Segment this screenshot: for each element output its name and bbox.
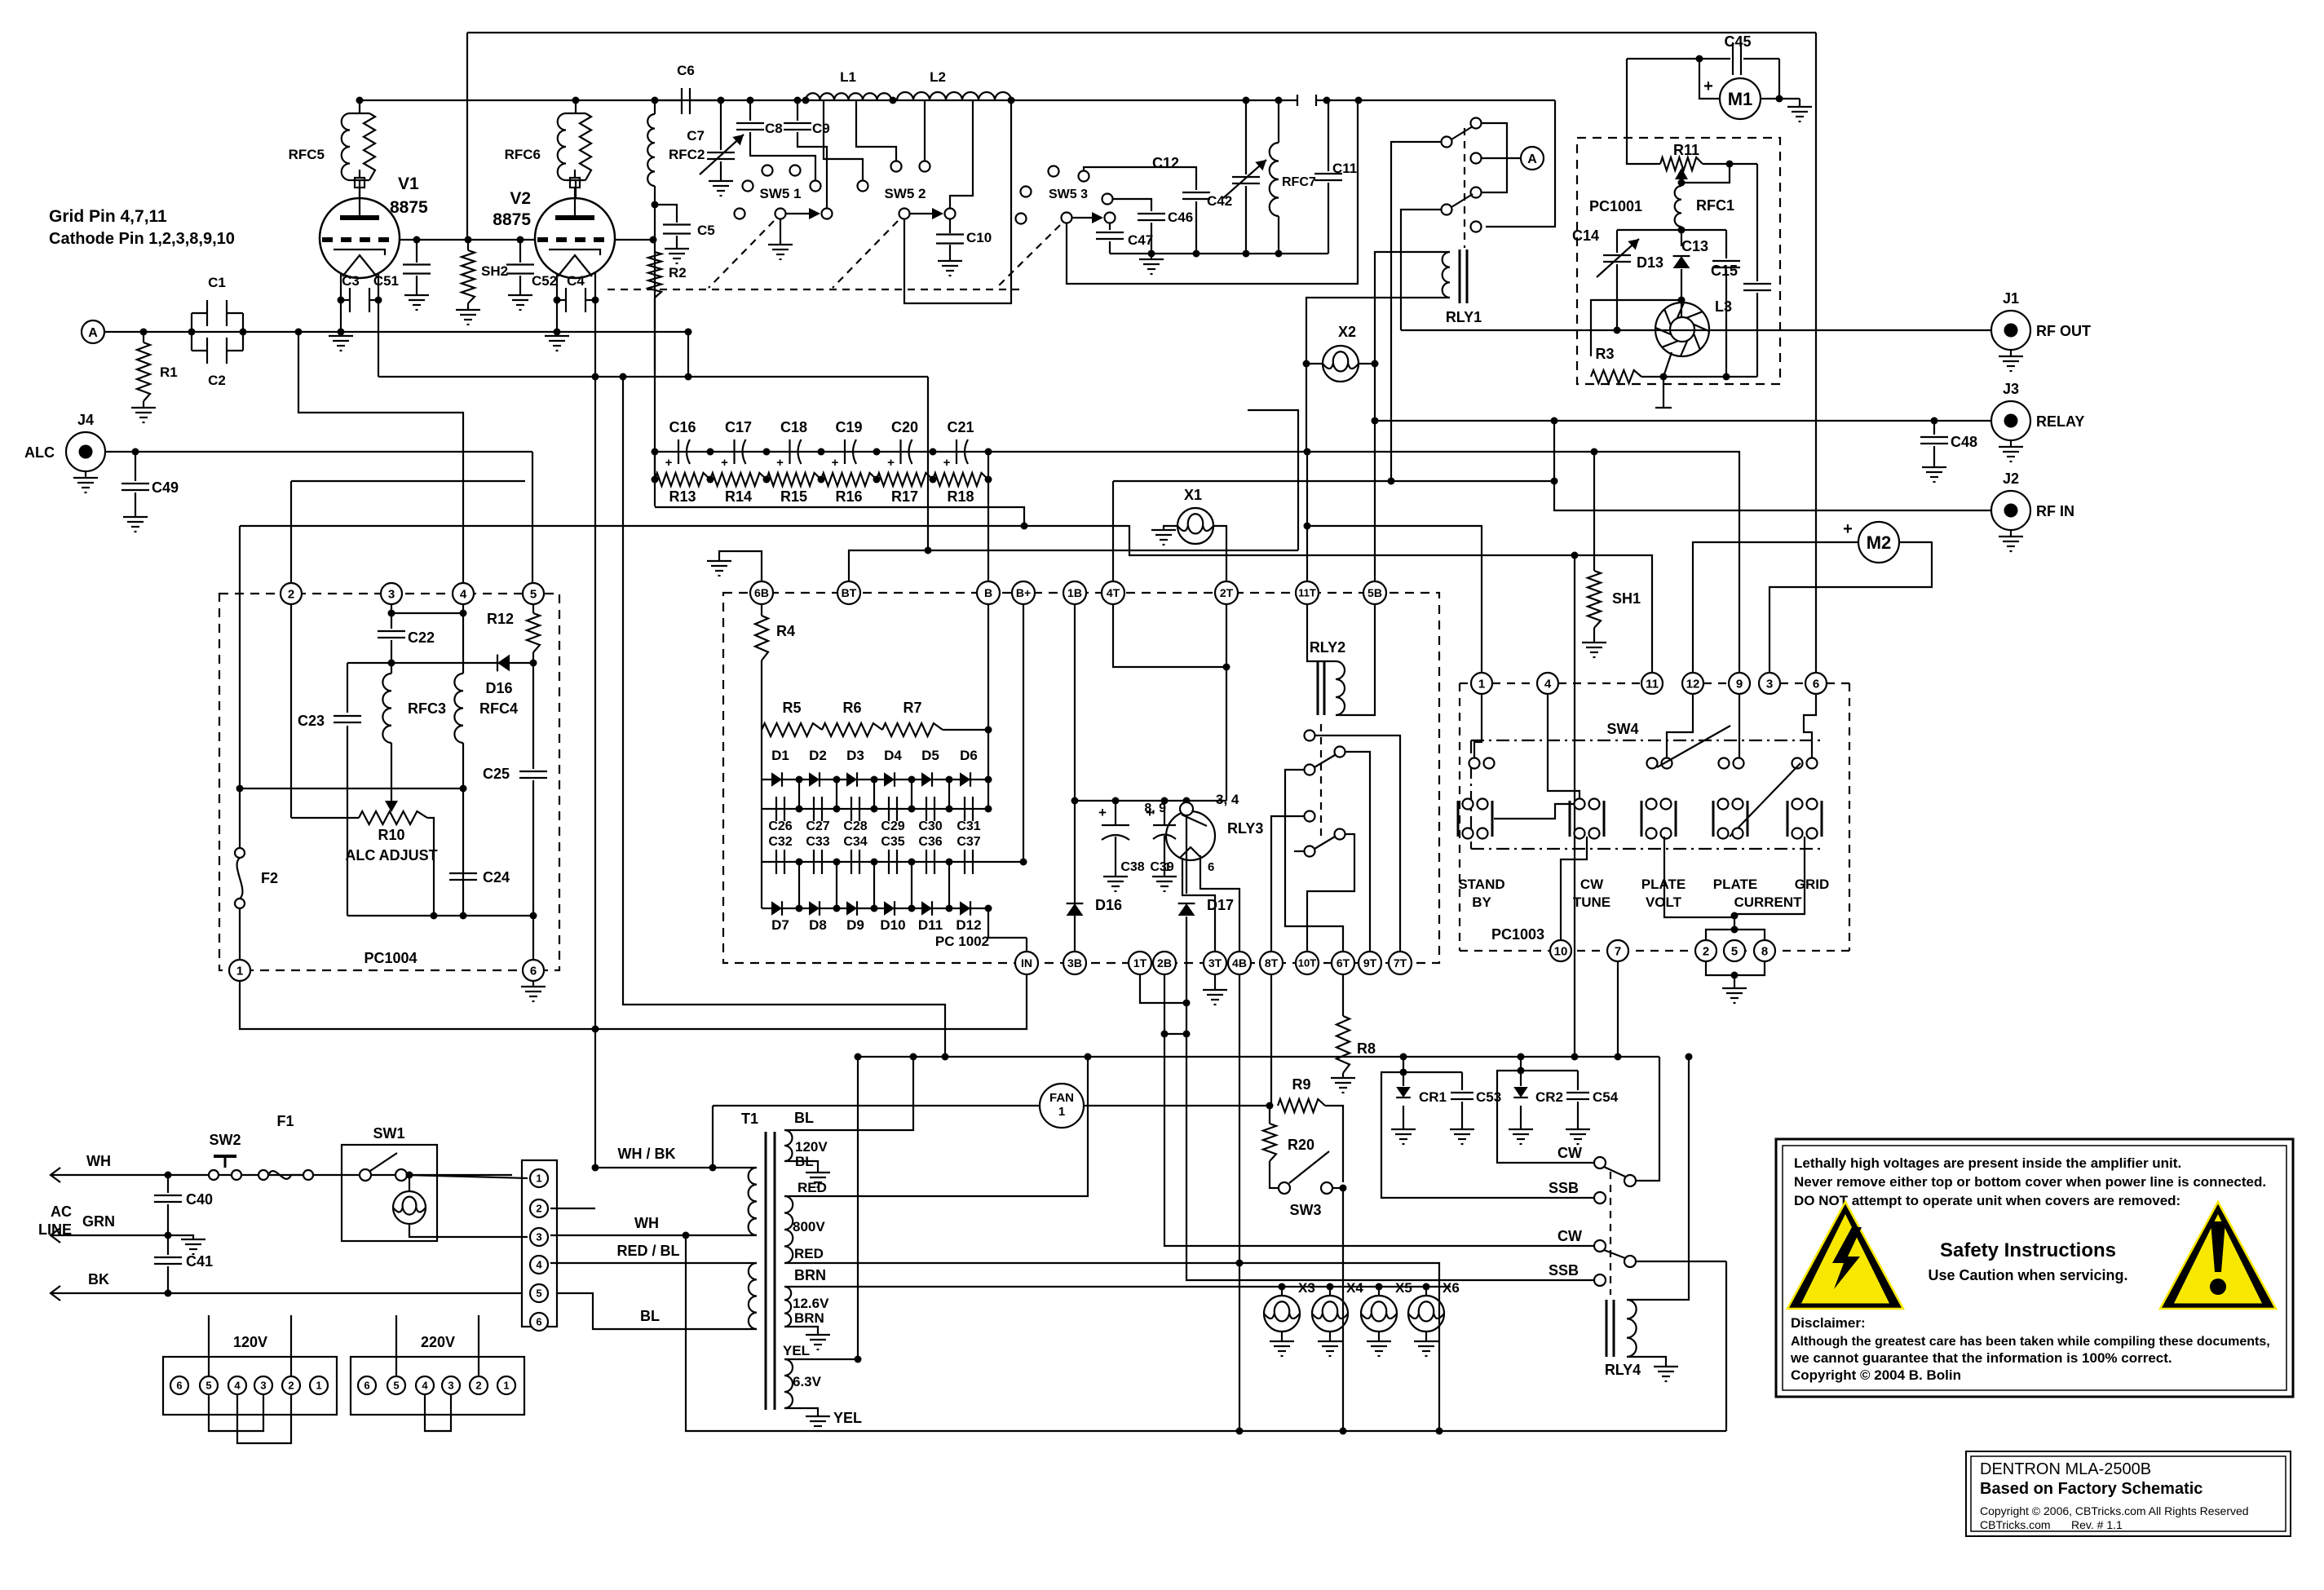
- wire WH column to bottom bus: [686, 1235, 1726, 1431]
- warning triangle high voltage: [1787, 1202, 1903, 1309]
- wire 220V stubs: [395, 1315, 397, 1376]
- capacitor C51: [416, 240, 418, 263]
- node 8 PC1003: [1754, 940, 1775, 961]
- svg-text:F2: F2: [261, 870, 278, 886]
- capacitor C45: [1627, 58, 1730, 60]
- svg-text:+: +: [887, 456, 895, 470]
- wire node 2 stub line: [291, 480, 525, 482]
- ground GRN: [168, 1235, 193, 1239]
- svg-text:R16: R16: [835, 488, 862, 505]
- svg-text:SH2: SH2: [481, 263, 508, 279]
- svg-text:C25: C25: [483, 766, 510, 782]
- svg-text:C48: C48: [1951, 434, 1977, 450]
- warning triangle exclamation: [2160, 1202, 2276, 1309]
- svg-text:1: 1: [536, 1173, 541, 1185]
- svg-text:D17: D17: [1207, 897, 1234, 913]
- svg-text:R20: R20: [1288, 1137, 1314, 1153]
- switch SW1 contacts: [360, 1169, 371, 1181]
- wire X1 to 2T column: [1213, 526, 1226, 581]
- wire STAND BY row link: [1494, 804, 1574, 819]
- dashed RLY2 actuator: [1320, 724, 1322, 838]
- svg-text:DO NOT attempt to operate unit: DO NOT attempt to operate unit when cove…: [1794, 1193, 2180, 1208]
- svg-text:C42: C42: [1207, 193, 1232, 209]
- capacitor C42: [1084, 167, 1196, 190]
- terminal 2: [530, 1199, 548, 1217]
- node 3B: [1063, 952, 1086, 974]
- terminal 1 (120V block): [310, 1376, 328, 1394]
- resistor R1: [143, 332, 144, 342]
- wire J3 relay line: [1375, 420, 1991, 422]
- svg-text:CW: CW: [1557, 1145, 1582, 1161]
- capacitor C41: [167, 1235, 169, 1255]
- wire RF OUT line: [1401, 329, 1991, 331]
- svg-text:YEL: YEL: [783, 1343, 810, 1358]
- svg-text:+: +: [776, 456, 784, 470]
- capacitor C2: [192, 350, 207, 351]
- svg-text:C9: C9: [812, 121, 830, 136]
- wire RLY1 moving c6 to RF OUT: [1401, 210, 1442, 330]
- svg-text:R5: R5: [782, 700, 801, 716]
- switch SW5 2 selector: [899, 209, 910, 219]
- ground C49: [123, 516, 148, 518]
- node 5B: [1363, 581, 1386, 604]
- wire M2 minus to node 3: [1770, 542, 1932, 674]
- svg-text:1: 1: [1164, 860, 1171, 874]
- node 2T: [1215, 581, 1238, 604]
- svg-text:Based on Factory Schematic: Based on Factory Schematic: [1980, 1480, 2202, 1498]
- svg-text:BK: BK: [88, 1271, 109, 1287]
- svg-text:R3: R3: [1595, 346, 1614, 362]
- node 9 PC1003: [1729, 673, 1750, 694]
- wire L1 tap 2: [856, 100, 896, 161]
- svg-text:3B: 3B: [1067, 956, 1082, 969]
- wire RLY2 c3 to 6T: [1285, 770, 1343, 952]
- svg-text:4: 4: [536, 1259, 542, 1271]
- wire SW3 column to bottom bus: [1342, 1188, 1344, 1431]
- svg-text:YEL: YEL: [833, 1410, 862, 1426]
- svg-text:2: 2: [1703, 944, 1709, 958]
- inductor L2: [890, 97, 897, 104]
- wire plate bus: [360, 99, 1297, 101]
- wire RLY3 pin1 to 3T: [1182, 858, 1215, 952]
- svg-text:5: 5: [536, 1287, 541, 1300]
- terminal 4 (220V block): [416, 1376, 434, 1394]
- svg-text:SSB: SSB: [1549, 1262, 1579, 1279]
- svg-text:C12: C12: [1152, 155, 1179, 171]
- svg-text:+: +: [832, 456, 839, 470]
- svg-text:C15: C15: [1711, 263, 1738, 279]
- wire BL top lead: [784, 1057, 913, 1130]
- wire RLY2 c4 to 8T: [1271, 816, 1305, 952]
- terminal 4 (120V block): [228, 1376, 246, 1394]
- svg-text:C54: C54: [1593, 1089, 1619, 1105]
- svg-text:3: 3: [448, 1380, 453, 1392]
- ground R8: [1331, 1077, 1355, 1079]
- svg-text:Never remove either top or bot: Never remove either top or bottom cover …: [1794, 1174, 2266, 1190]
- svg-text:220V: 220V: [421, 1334, 455, 1350]
- svg-text:SW2: SW2: [209, 1132, 241, 1148]
- svg-text:6: 6: [530, 964, 537, 978]
- svg-text:4: 4: [422, 1380, 428, 1392]
- wire D16 row: [347, 662, 533, 664]
- svg-text:CURRENT: CURRENT: [1734, 894, 1802, 910]
- svg-text:D9: D9: [846, 917, 864, 933]
- svg-text:RFC5: RFC5: [289, 147, 325, 162]
- svg-text:C26: C26: [768, 819, 792, 833]
- svg-text:1: 1: [503, 1380, 509, 1392]
- diode D16 (pc1004): [497, 655, 510, 672]
- wire grid line V1-V2: [400, 239, 535, 241]
- switch SW5 1 contacts: [762, 166, 773, 176]
- svg-text:6B: 6B: [754, 586, 769, 599]
- svg-text:SH1: SH1: [1612, 590, 1641, 607]
- node 3 PC1004: [381, 583, 402, 604]
- wire 120V jumpers: [209, 1394, 263, 1431]
- svg-text:D8: D8: [809, 917, 827, 933]
- capacitor C18: [789, 439, 790, 464]
- svg-text:D7: D7: [771, 917, 789, 933]
- svg-text:BL: BL: [640, 1308, 660, 1324]
- svg-text:L3: L3: [1715, 298, 1732, 315]
- svg-text:7T: 7T: [1394, 956, 1407, 969]
- node 1T: [1129, 952, 1151, 974]
- wire matrix ties upper: [798, 780, 800, 809]
- svg-text:8T: 8T: [1265, 956, 1279, 969]
- svg-text:C3: C3: [342, 273, 360, 289]
- resistor R18: [933, 473, 988, 486]
- svg-text:L2: L2: [930, 69, 946, 85]
- diode D9: [846, 901, 857, 916]
- svg-text:5: 5: [530, 587, 537, 601]
- node 11T: [1296, 581, 1319, 604]
- svg-text:J2: J2: [2003, 470, 2019, 487]
- wire 2-5-8 tie bottom: [1706, 962, 1765, 975]
- wire grid line V2 to RFC2 column: [615, 239, 653, 241]
- wire BT line corner up: [1248, 410, 1298, 550]
- svg-text:RFC4: RFC4: [479, 700, 518, 717]
- connector J2 RF IN: [1991, 491, 2030, 530]
- wire GRID bottom to node 5: [1734, 837, 1805, 914]
- node 2 PC1004: [290, 481, 292, 582]
- svg-text:C6: C6: [677, 63, 695, 78]
- svg-text:D12: D12: [956, 917, 981, 933]
- svg-text:3: 3: [536, 1231, 541, 1243]
- switch SW4 block PLATE VOLT: [1646, 799, 1657, 810]
- svg-text:SW5 3: SW5 3: [1049, 188, 1088, 201]
- svg-text:Copyright © 2006, CBTricks.com: Copyright © 2006, CBTricks.com All Right…: [1980, 1504, 2249, 1517]
- resistor R3: [1591, 370, 1641, 383]
- T1 secondary RED 800V winding: [784, 1196, 793, 1263]
- svg-text:D4: D4: [884, 748, 902, 763]
- svg-text:5: 5: [393, 1380, 399, 1392]
- node 3 PC1003: [1759, 673, 1780, 694]
- toroid L3: [1655, 303, 1709, 356]
- node 8T: [1260, 952, 1283, 974]
- meter M2: [1858, 522, 1899, 563]
- svg-text:6.3V: 6.3V: [793, 1374, 822, 1389]
- wire 1B column: [1074, 604, 1076, 952]
- svg-text:RELAY: RELAY: [2036, 413, 2084, 430]
- svg-text:C18: C18: [780, 419, 807, 435]
- svg-text:10: 10: [1554, 944, 1568, 958]
- capacitor C54: [1577, 1071, 1579, 1090]
- svg-text:RF IN: RF IN: [2036, 503, 2074, 519]
- ground M1: [1799, 99, 1800, 107]
- potentiometer R11: [1660, 157, 1703, 170]
- node 9T: [1359, 952, 1381, 974]
- diode D17: [1186, 801, 1187, 894]
- capacitor row C32-C37: [762, 861, 988, 863]
- svg-text:800V: 800V: [793, 1219, 825, 1234]
- resistor SH2: [462, 250, 475, 303]
- switch SW4 dash-dot outline: [1471, 740, 1824, 741]
- wire AC BK line: [51, 1286, 60, 1301]
- svg-text:WH / BK: WH / BK: [618, 1146, 676, 1162]
- svg-text:RFC1: RFC1: [1696, 197, 1734, 214]
- wire RFC1 bottom node: [1617, 229, 1726, 231]
- svg-text:R4: R4: [776, 623, 795, 639]
- wire SW1 lamp to WH: [409, 1224, 528, 1237]
- svg-text:R14: R14: [725, 488, 752, 505]
- svg-text:8, 9: 8, 9: [1144, 802, 1166, 815]
- wire ALC line: [105, 451, 532, 453]
- svg-text:RED: RED: [794, 1246, 824, 1261]
- svg-text:4: 4: [234, 1380, 241, 1392]
- vacuum tube V2 8875: [535, 198, 615, 278]
- ground C39: [1152, 876, 1177, 877]
- svg-text:6T: 6T: [1337, 956, 1350, 969]
- node 10 PC1003: [1550, 940, 1571, 961]
- svg-text:8875: 8875: [493, 210, 531, 229]
- capacitor C22: [391, 613, 392, 629]
- capacitor C47: [1109, 223, 1111, 230]
- svg-text:B+: B+: [1016, 586, 1031, 599]
- svg-text:RFC7: RFC7: [1282, 175, 1316, 189]
- svg-text:D16: D16: [485, 680, 512, 696]
- node 6 PC1004: [523, 960, 544, 981]
- wire 220V jumper: [425, 1394, 451, 1431]
- diode D11: [921, 901, 932, 916]
- ground 6B: [719, 551, 762, 581]
- terminal 5: [530, 1284, 548, 1302]
- svg-text:9: 9: [1736, 677, 1743, 691]
- node A (output sample): [1481, 157, 1521, 159]
- connector J4 ALC: [66, 432, 105, 471]
- svg-text:C47: C47: [1128, 232, 1153, 248]
- wire node 2 column to R10: [290, 605, 292, 818]
- wire node 1 to IN node: [240, 974, 1027, 1029]
- RF choke RFC3: [382, 674, 391, 743]
- terminal 3 (220V block): [442, 1376, 460, 1394]
- wire R11 right: [1703, 163, 1757, 165]
- wire SW5 3 selector loop to bus: [1067, 100, 1358, 284]
- svg-text:2: 2: [475, 1380, 481, 1392]
- wire CW TUNE to node 10: [1561, 837, 1587, 940]
- svg-text:RLY2: RLY2: [1310, 639, 1345, 656]
- wire RLY2 c2 to 9T: [1345, 752, 1370, 952]
- svg-text:D13: D13: [1637, 254, 1663, 271]
- wire 120V stubs: [208, 1315, 210, 1376]
- capacitor C33: [813, 850, 815, 874]
- svg-text:C27: C27: [806, 819, 829, 833]
- svg-text:BRN: BRN: [794, 1267, 826, 1283]
- potentiometer R10: [359, 811, 427, 824]
- node 5 PC1003: [1724, 940, 1745, 961]
- relay RLY4: [1606, 1300, 1608, 1357]
- svg-text:Copyright © 2004 B. Bolin: Copyright © 2004 B. Bolin: [1791, 1367, 1961, 1383]
- lamp X1: [1177, 508, 1213, 544]
- svg-text:R15: R15: [780, 488, 807, 505]
- wire RFC3 to R10 wiper: [391, 743, 392, 804]
- svg-text:C5: C5: [697, 223, 715, 238]
- wire bus corner to RLY1 contact: [1486, 100, 1555, 227]
- wire node4 stem: [1548, 695, 1580, 799]
- ground 3T: [1214, 974, 1216, 990]
- capacitor C39 (electrolytic): [1164, 801, 1165, 825]
- svg-text:TUNE: TUNE: [1573, 894, 1610, 910]
- wire ladder left side: [654, 452, 656, 479]
- node 2B: [1153, 952, 1176, 974]
- svg-text:2: 2: [288, 1380, 294, 1392]
- wire 1T/2B tie to D17 column: [1140, 974, 1186, 1003]
- svg-text:C30: C30: [918, 819, 942, 833]
- lamp SW1: [393, 1191, 426, 1224]
- svg-text:+: +: [1703, 77, 1713, 95]
- resistor SH1: [1588, 571, 1601, 628]
- svg-text:1T: 1T: [1133, 956, 1147, 969]
- svg-text:A: A: [88, 326, 98, 340]
- terminal 1 (220V block): [497, 1376, 515, 1394]
- terminal 4: [530, 1256, 548, 1274]
- svg-text:BY: BY: [1472, 894, 1491, 910]
- node 4T: [1102, 581, 1124, 604]
- wire RLY2 coil bottom to 5B: [1336, 604, 1375, 715]
- connector J1 RF OUT: [1991, 311, 2030, 350]
- capacitor C25: [532, 663, 534, 769]
- wire D17 column down to lower SSB: [1186, 1034, 1593, 1280]
- svg-text:C23: C23: [298, 713, 325, 729]
- svg-text:10T: 10T: [1298, 957, 1316, 969]
- resistor R9: [1278, 1099, 1325, 1112]
- svg-text:C35: C35: [881, 835, 904, 849]
- node 1 PC1003: [1471, 673, 1492, 694]
- resistors R5 R6 R7: [762, 723, 822, 736]
- svg-text:RFC2: RFC2: [669, 147, 705, 162]
- node B: [977, 581, 1000, 604]
- svg-text:GRN: GRN: [82, 1213, 115, 1230]
- node 1B: [1063, 581, 1086, 604]
- T1 secondary YEL 6.3V winding: [784, 1359, 793, 1408]
- svg-text:RLY3: RLY3: [1227, 820, 1263, 837]
- node 4 PC1003: [1537, 673, 1558, 694]
- svg-text:BRN: BRN: [794, 1310, 824, 1326]
- svg-text:T1: T1: [741, 1111, 758, 1127]
- terminal 6: [530, 1313, 548, 1331]
- capacitor C48: [1933, 421, 1935, 435]
- terminal 3 (120V block): [254, 1376, 272, 1394]
- svg-text:C36: C36: [918, 835, 942, 849]
- node 4 PC1004: [298, 332, 463, 582]
- wire WH/BK lead: [595, 1167, 757, 1168]
- svg-text:Disclaimer:: Disclaimer:: [1791, 1315, 1866, 1331]
- resistor R13: [655, 473, 710, 486]
- resistor R20: [1269, 1106, 1270, 1124]
- svg-text:R18: R18: [947, 488, 974, 505]
- svg-text:F1: F1: [276, 1113, 294, 1129]
- ground C48: [1922, 466, 1946, 468]
- svg-text:2: 2: [536, 1203, 541, 1215]
- wire RLY1 c1-c4 tie: [1481, 123, 1507, 192]
- wire BRN lead to lamps: [784, 1286, 1451, 1287]
- lamp X4: [1327, 1283, 1334, 1291]
- svg-text:C51: C51: [373, 273, 399, 289]
- capacitor C28: [851, 797, 852, 821]
- dashed CW/SSB actuator: [1610, 1172, 1611, 1295]
- wire BT line: [849, 550, 1298, 581]
- ground J4: [85, 471, 86, 478]
- wire RED/BL lead: [550, 1262, 757, 1264]
- ground V1 cathode: [329, 335, 353, 337]
- capacitor C34: [851, 850, 852, 874]
- vacuum tube V1 8875: [320, 198, 400, 278]
- wire top HV bus: [467, 32, 1816, 33]
- capacitor C11: [1323, 97, 1331, 104]
- svg-text:RF OUT: RF OUT: [2036, 323, 2091, 339]
- resistor R4: [761, 604, 762, 616]
- svg-text:+: +: [943, 456, 951, 470]
- svg-text:SW4: SW4: [1606, 721, 1638, 737]
- svg-text:5: 5: [1731, 944, 1738, 958]
- svg-text:C32: C32: [768, 835, 792, 849]
- resistor R14: [710, 473, 767, 486]
- svg-text:1B: 1B: [1067, 586, 1082, 599]
- capacitor C32: [775, 850, 777, 874]
- wire RLY2 c1 to 7T: [1314, 735, 1400, 952]
- node 12 PC1003: [1682, 673, 1703, 694]
- PC1003 dashed outline: [1460, 682, 1471, 684]
- node 7 PC1003: [1607, 940, 1628, 961]
- svg-text:Although the greatest care has: Although the greatest care has been take…: [1791, 1335, 2270, 1349]
- wire matrix ties lower: [798, 862, 800, 908]
- capacitor C46: [1113, 199, 1151, 211]
- wire B+ column: [1023, 604, 1024, 862]
- svg-text:C1: C1: [208, 275, 226, 290]
- wire input line: [104, 331, 688, 333]
- wire R9 to SW3: [1325, 1106, 1343, 1182]
- wire node6 stem: [1804, 695, 1816, 758]
- lamp X3: [1279, 1283, 1286, 1291]
- wire 2T column: [1226, 604, 1227, 801]
- diode D8: [809, 901, 820, 916]
- ground node 6: [532, 981, 534, 987]
- svg-text:C17: C17: [725, 419, 752, 435]
- wire R2 bottom to ladder rail: [654, 298, 656, 506]
- svg-text:120V: 120V: [233, 1334, 267, 1350]
- jumper block 120V: [163, 1357, 337, 1415]
- PC1004 dashed outline: [219, 594, 559, 970]
- svg-text:+: +: [665, 456, 673, 470]
- capacitor C40: [167, 1175, 169, 1193]
- terminal 5 (120V block): [200, 1376, 218, 1394]
- wire node12 stem: [1667, 695, 1693, 758]
- relay RLY2: [1307, 604, 1336, 661]
- inductor L1: [802, 97, 810, 104]
- svg-text:IN: IN: [1021, 956, 1032, 969]
- node 3T: [1204, 952, 1226, 974]
- ground V2 cathode: [545, 335, 569, 337]
- wire node1 stem: [1474, 695, 1482, 757]
- wire X2 left column to 11T: [1306, 364, 1307, 452]
